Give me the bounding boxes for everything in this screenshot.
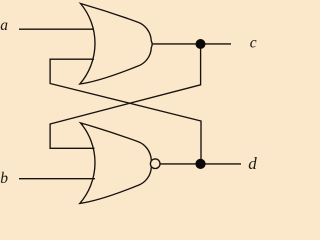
svg-text:c: c (250, 35, 257, 52)
svg-text:a: a (0, 17, 8, 34)
svg-text:d: d (248, 154, 257, 173)
svg-text:b: b (0, 170, 8, 187)
